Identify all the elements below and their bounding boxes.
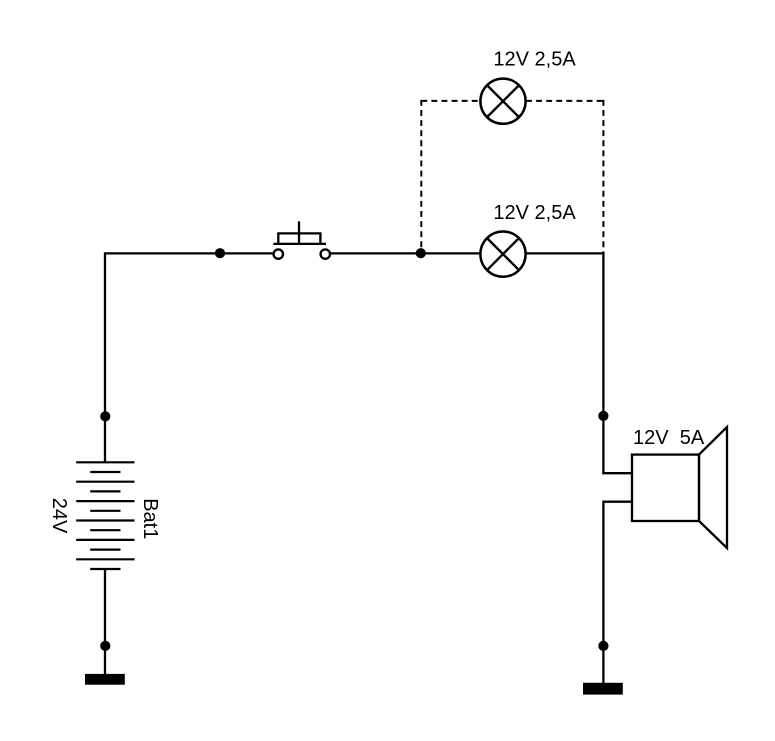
short plate 1 (90, 471, 120, 473)
ground (right, speaker return) (583, 683, 623, 695)
wire: left vertical from corner down to battery top (104, 252, 106, 463)
wire: dashed vertical right branch (602, 100, 604, 253)
svg-text:24V: 24V (48, 498, 70, 534)
wire: switch right contact to lamp La2 left (331, 252, 480, 254)
wire: top horizontal from battery branch to switch left contact (105, 252, 273, 254)
node: junction dot on left vertical above battery (100, 411, 110, 421)
actuator bar (273, 243, 326, 245)
horn (699, 427, 727, 548)
wire: speaker upper terminal horizontal (602, 472, 632, 474)
short plate 2 (90, 490, 120, 492)
long plate 5 (76, 539, 134, 541)
node: junction dot on top wire left of switch (215, 248, 225, 258)
pushbutton switch S1 (273, 221, 330, 259)
long plate 2 (76, 481, 134, 483)
body box (632, 455, 699, 521)
bracket right leg (319, 233, 321, 244)
node: junction dot above right ground (598, 641, 608, 651)
bracket left leg (277, 233, 279, 244)
short plate 5 (90, 548, 120, 550)
short plate 6 (90, 568, 120, 570)
svg-text:12V 2,5A: 12V 2,5A (493, 48, 576, 70)
long plate 3 (76, 500, 134, 502)
right contact circle (321, 249, 330, 258)
ground (left, battery minus) (85, 674, 125, 685)
loudspeaker LS1 (632, 427, 727, 548)
lamp La2 (main branch) (480, 232, 525, 277)
svg-text:Bat1: Bat1 (139, 498, 161, 539)
short plate 3 (90, 510, 120, 512)
svg-text:12V 5A: 12V 5A (633, 427, 705, 449)
stem (298, 221, 300, 244)
long plate 6 (76, 558, 134, 560)
node: junction dot at dashed branch tap (416, 248, 426, 258)
battery Bat1 (76, 462, 134, 569)
wire: dashed horizontal right of lamp La1 (526, 100, 604, 102)
long plate 1 (76, 461, 134, 463)
wire: dashed horizontal left of lamp La1 (421, 100, 480, 102)
node: junction dot above left ground (100, 641, 110, 651)
lamp La1 (top, dashed branch) (480, 79, 525, 124)
node: junction dot on right vertical above speaker (598, 411, 608, 421)
wire: right vertical from speaker lower terminal to right ground (602, 502, 604, 684)
wire: dashed vertical left branch (420, 100, 422, 253)
wire: speaker lower terminal horizontal (602, 501, 632, 503)
bracket top bar (277, 232, 321, 234)
left contact circle (274, 249, 283, 258)
long plate 4 (76, 519, 134, 521)
short plate 4 (90, 529, 120, 531)
wire: battery bottom down to left ground (104, 569, 106, 675)
wire: right vertical from corner down to speaker upper terminal (602, 252, 604, 473)
wire: lamp La2 right to right corner (526, 252, 605, 254)
svg-text:12V 2,5A: 12V 2,5A (493, 202, 576, 224)
